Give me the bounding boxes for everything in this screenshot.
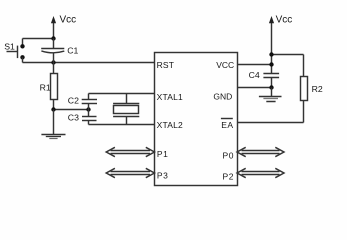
crystal X1 <box>113 94 139 125</box>
svg-text:R2: R2 <box>312 84 323 94</box>
wire Vcc branch to R2 top <box>272 55 304 77</box>
power Vcc (right) <box>269 15 292 74</box>
node junction C4 / GND <box>269 85 273 89</box>
wire GND pin to ground node <box>238 87 272 89</box>
svg-text:RST: RST <box>157 60 175 70</box>
ground (left) <box>41 110 65 139</box>
wire XTAL2 net <box>89 124 155 126</box>
wire mid (R1/ground node to C2/C3 node) <box>54 109 89 111</box>
svg-text:P3: P3 <box>157 170 169 180</box>
node junction Vcc / C1 top <box>51 36 55 40</box>
wire VCC pin to Vcc node <box>238 64 272 66</box>
bus arrow P3 (left) <box>106 168 154 177</box>
svg-text:P0: P0 <box>222 150 234 160</box>
svg-text:VCC: VCC <box>216 60 234 70</box>
svg-text:C4: C4 <box>249 70 260 80</box>
capacitor C3 <box>68 110 97 125</box>
svg-text:C1: C1 <box>67 46 78 56</box>
resistor R1 <box>40 63 58 110</box>
pin label EA (with overline) <box>221 119 234 130</box>
wire top (S1 to Vcc node) <box>23 38 54 40</box>
wire EA pin to R2 bottom <box>238 101 304 123</box>
svg-text:XTAL1: XTAL1 <box>157 92 183 102</box>
svg-text:S1: S1 <box>4 41 15 51</box>
svg-text:C3: C3 <box>68 113 79 123</box>
wire RST net (S1/C1/R1 to RST pin) <box>23 62 155 64</box>
bus arrow P0 (right) <box>237 147 284 156</box>
ground (right) <box>259 88 282 102</box>
bus arrow P2 (right) <box>237 168 284 177</box>
node junction Vcc / VCC pin <box>269 62 273 66</box>
svg-text:C2: C2 <box>68 95 79 105</box>
capacitor C2 <box>68 94 97 110</box>
resistor R2 <box>301 77 323 101</box>
svg-text:EA: EA <box>221 120 233 130</box>
capacitor C4 <box>249 70 280 87</box>
node junction C2/C3 <box>86 107 90 111</box>
svg-text:P2: P2 <box>222 171 234 181</box>
bus arrow P1 (left) <box>106 147 154 156</box>
IC U1 (MCU) <box>155 53 238 186</box>
power Vcc (left) <box>51 15 76 39</box>
svg-text:GND: GND <box>213 91 232 101</box>
switch S1 <box>4 39 25 63</box>
svg-text:Vcc: Vcc <box>276 15 293 26</box>
svg-text:R1: R1 <box>40 83 51 93</box>
wire XTAL1 net <box>89 93 155 95</box>
svg-text:Vcc: Vcc <box>60 15 77 26</box>
svg-text:P1: P1 <box>157 149 169 159</box>
capacitor C1 <box>41 39 78 63</box>
node junction C1 bottom / R1 top <box>51 60 55 64</box>
svg-text:XTAL2: XTAL2 <box>157 120 183 130</box>
node junction Vcc / R2 branch <box>269 52 273 56</box>
node junction R1 bottom / ground <box>51 107 55 111</box>
